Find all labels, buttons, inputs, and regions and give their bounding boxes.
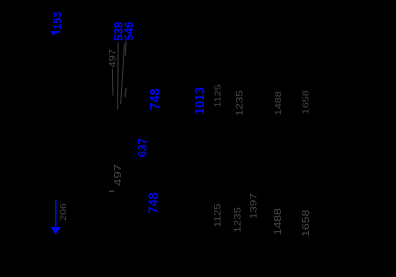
svg-text:748: 748 bbox=[147, 88, 162, 109]
wire below 497 top bbox=[111, 69, 114, 96]
svg-text:637: 637 bbox=[136, 138, 149, 157]
svg-text:546: 546 bbox=[123, 21, 136, 40]
svg-text:1488: 1488 bbox=[273, 208, 284, 235]
svg-text:1658: 1658 bbox=[301, 90, 311, 114]
svg-text:1125: 1125 bbox=[214, 84, 224, 108]
svg-text:1013: 1013 bbox=[192, 87, 207, 115]
svg-text:1235: 1235 bbox=[233, 207, 243, 233]
svg-text:497: 497 bbox=[111, 164, 123, 186]
wire stub from 546 bbox=[125, 41, 128, 56]
svg-text:748: 748 bbox=[146, 192, 161, 214]
svg-text:1658: 1658 bbox=[301, 210, 312, 237]
node 153 marker arrow bbox=[51, 31, 60, 36]
arrow at 206 bbox=[50, 200, 61, 235]
svg-text:153: 153 bbox=[52, 12, 64, 30]
wire from 538 bbox=[117, 43, 119, 110]
svg-text:497: 497 bbox=[108, 49, 118, 68]
svg-text:1235: 1235 bbox=[235, 90, 246, 116]
wire from 546 bbox=[121, 44, 125, 105]
svg-text:1125: 1125 bbox=[214, 203, 224, 227]
svg-text:1488: 1488 bbox=[274, 91, 284, 115]
svg-text:206: 206 bbox=[59, 203, 69, 221]
dash below 497 bottom bbox=[109, 191, 114, 193]
svg-text:1397: 1397 bbox=[249, 193, 260, 219]
short tick bbox=[125, 88, 127, 97]
